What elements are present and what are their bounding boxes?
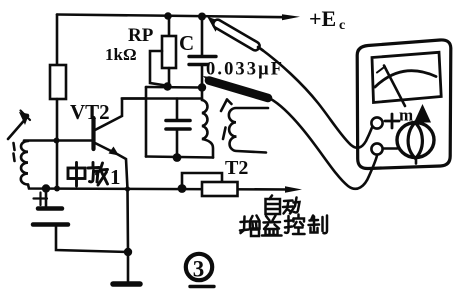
transformer T2 primary — [202, 88, 213, 158]
svg-text:+E: +E — [309, 6, 336, 31]
svg-text:VT2: VT2 — [70, 100, 110, 124]
label AGC 增益控制 — [240, 215, 327, 237]
transformer T2 core dashes — [221, 100, 227, 112]
resistor R (left bias) — [50, 65, 66, 99]
label AGC 自动 — [266, 196, 300, 215]
wire base lead — [24, 139, 92, 142]
probe red (open pen) — [210, 18, 263, 52]
svg-text:C: C — [179, 31, 194, 55]
动 — [284, 199, 293, 202]
wire probe black to terminal 2 — [270, 99, 377, 189]
multimeter body — [357, 40, 451, 169]
svg-text:c: c — [339, 18, 345, 33]
capacitor C2 electrolytic — [45, 189, 48, 207]
multimeter needle — [384, 66, 405, 107]
wire RP bottom — [168, 68, 171, 87]
svg-text:RP: RP — [128, 25, 154, 46]
wire left branch vertical — [56, 15, 59, 66]
transistor VT2 collector — [95, 99, 146, 131]
multimeter scale arc — [375, 71, 436, 87]
capacitor C2 electrolytic plus sign — [34, 197, 48, 199]
resistor R-AGC — [202, 182, 238, 196]
wire tank top — [122, 97, 202, 100]
transformer T2 secondary — [229, 108, 268, 153]
label +Ec — [309, 6, 345, 33]
+Ec arrowhead — [282, 14, 300, 20]
自 — [270, 196, 273, 200]
svg-text:T2: T2 — [225, 157, 248, 179]
wire resistor to bottom — [56, 99, 59, 188]
svg-text:1: 1 — [110, 165, 121, 189]
multimeter terminal 1 — [371, 117, 382, 128]
wire tank bottom — [146, 157, 213, 158]
multimeter terminal plus — [385, 120, 399, 123]
multimeter window — [372, 52, 441, 102]
antenna adjust arrow — [8, 116, 28, 139]
core dash 1 — [14, 143, 15, 150]
node RP bottom — [163, 82, 171, 90]
node rail-RP junction — [164, 12, 172, 20]
wire +Ec top rail — [57, 15, 285, 18]
multimeter terminal 2 — [371, 143, 382, 154]
potentiometer RP wiper — [150, 51, 166, 86]
node resistor-bottom junction — [54, 186, 60, 192]
放 — [92, 163, 95, 168]
svg-text:1kΩ: 1kΩ — [105, 45, 137, 64]
制 — [311, 216, 313, 221]
svg-text:3: 3 — [193, 257, 205, 282]
node AGC loop — [178, 184, 187, 193]
wire probe red to terminal 1 — [261, 49, 372, 148]
node coil-cap junction — [42, 184, 50, 192]
transistor VT2 emitter — [95, 143, 116, 154]
label 中放 1 — [68, 163, 108, 187]
AGC arrowhead — [285, 186, 302, 193]
中 — [68, 168, 85, 179]
wire node line — [146, 86, 202, 89]
node emitter-AGC crossing — [125, 186, 130, 191]
wire coil bottom to AGC line — [28, 185, 290, 190]
multimeter knob pointer lens — [408, 123, 422, 159]
capacitor C — [189, 55, 216, 58]
wire tank left vertical — [145, 87, 148, 157]
core dash 2 — [14, 154, 15, 162]
label circled 3 — [186, 254, 212, 280]
node ground junction — [124, 248, 132, 256]
resistor R-AGC bypass loop — [182, 173, 222, 188]
capacitor tank — [176, 99, 179, 120]
multimeter knob — [397, 123, 434, 158]
益 — [266, 216, 270, 221]
node C bottom — [198, 83, 206, 91]
probe black (filled) — [203, 76, 213, 86]
node tank-cap bottom — [173, 153, 182, 162]
svg-text:0.033μF: 0.033μF — [206, 60, 282, 80]
ground — [113, 281, 140, 287]
inductor L1 (IF coil) — [21, 141, 28, 185]
控 — [285, 216, 289, 233]
增 — [241, 217, 245, 234]
node base-wire crossing — [54, 138, 60, 144]
wire emitter down to ground — [117, 154, 128, 281]
multimeter terminal stub — [383, 147, 397, 150]
potentiometer RP — [162, 36, 176, 68]
potentiometer RP lead — [168, 16, 171, 36]
capacitor C lead — [201, 17, 204, 56]
transistor VT2 base bar — [91, 118, 95, 149]
node rail-C junction — [198, 13, 206, 21]
